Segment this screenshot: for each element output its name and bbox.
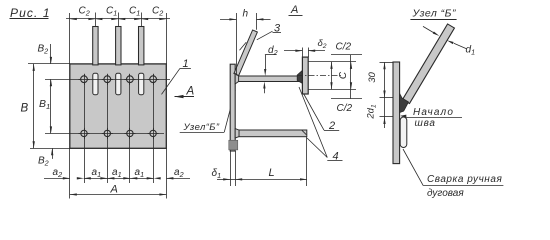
svg-text:30: 30	[367, 72, 378, 83]
svg-text:Рис. 1: Рис. 1	[10, 6, 51, 20]
svg-text:С/2: С/2	[337, 103, 353, 114]
svg-text:С/2: С/2	[336, 41, 352, 52]
svg-text:А: А	[110, 184, 118, 196]
svg-text:шва: шва	[415, 118, 436, 129]
svg-text:А: А	[186, 86, 195, 98]
svg-text:дуговая: дуговая	[427, 188, 464, 199]
svg-text:Узел“Б”: Узел“Б”	[183, 122, 220, 133]
svg-text:Сварка ручная: Сварка ручная	[427, 174, 502, 185]
svg-text:С: С	[338, 71, 349, 79]
svg-text:А: А	[290, 4, 298, 16]
svg-text:h: h	[243, 9, 249, 20]
svg-text:В: В	[21, 103, 29, 115]
svg-text:Начало: Начало	[413, 107, 454, 118]
svg-text:1: 1	[183, 58, 189, 70]
svg-text:L: L	[269, 167, 275, 179]
svg-text:Узел “Б”: Узел “Б”	[412, 8, 457, 20]
